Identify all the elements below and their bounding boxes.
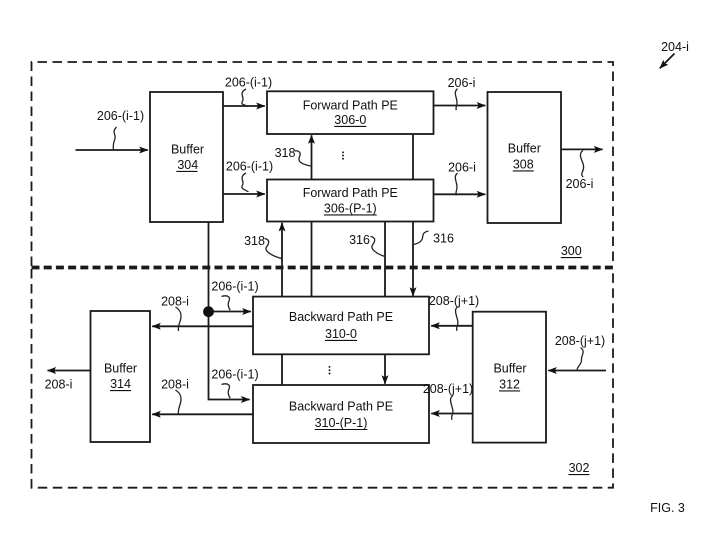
leader 318 lower [265,239,282,259]
leader 208-(j+1) lower [450,396,452,420]
svg-text:316: 316 [349,233,370,247]
leader 316 right [414,231,429,245]
wire from Buffer 304 bottom down to corner [209,222,250,400]
dashed divider (shared edge of 300/302) [32,266,614,268]
svg-text:312: 312 [499,377,520,391]
leader 316 left [371,237,386,257]
svg-text:204-i: 204-i [661,40,689,54]
svg-text:208-i: 208-i [45,378,73,392]
block Buffer 304 [150,92,223,222]
junction dot [203,306,214,317]
wire 310-(P-1) to Buffer 314 [152,413,253,415]
wire junction to 310-0 [209,311,251,313]
block Forward Path PE 306-0 [267,91,434,134]
leader 208-i lower [176,390,182,415]
svg-text:208-(j+1): 208-(j+1) [555,334,605,348]
block Forward Path PE 306-(P-1) [267,180,434,222]
svg-text:318: 318 [244,234,265,248]
svg-text:302: 302 [569,461,590,475]
wire Buffer 304 to 306-(P-1) [223,193,265,195]
leader 208-i upper [176,307,182,331]
wire 318 column: 310-0 top to 306-0 bottom [311,135,313,296]
svg-text:Forward Path PE: Forward Path PE [303,98,398,112]
svg-text:206-i: 206-i [566,177,594,191]
svg-text:310-0: 310-0 [325,327,357,341]
wire Buffer 314 output [48,370,91,372]
svg-text:206-(i-1): 206-(i-1) [97,109,144,123]
svg-text:316: 316 [433,232,454,246]
block Buffer 308 [488,92,562,223]
leader far left [113,127,116,150]
leader 208-(j+1) upper [455,307,457,331]
wire 310-0 to Buffer 314 [152,325,253,327]
leader lower junction [222,384,231,398]
svg-text:300: 300 [561,244,582,258]
svg-text:FIG. 3: FIG. 3 [650,501,685,515]
svg-text:310-(P-1): 310-(P-1) [315,416,368,430]
svg-text:206-(i-1): 206-(i-1) [211,368,258,382]
svg-text:Buffer: Buffer [104,361,137,375]
wire 316 column: 306-(P-1) bottom to 310-(P-1) top [384,222,386,384]
leader mid left [242,173,249,192]
leader 318 upper [295,151,311,166]
svg-text:Buffer: Buffer [508,142,541,156]
svg-text:208-(j+1): 208-(j+1) [429,294,479,308]
svg-text:206-(i-1): 206-(i-1) [225,76,272,90]
wire input to Buffer 304 [76,149,148,151]
leader 206-i mid [455,173,457,195]
svg-text:306-0: 306-0 [334,113,366,127]
wire 316 column: 306-0 bottom to 310-0 top [412,134,414,296]
svg-text:Buffer: Buffer [493,362,526,376]
svg-text:208-(j+1): 208-(j+1) [423,382,473,396]
svg-text:Forward Path PE: Forward Path PE [303,186,398,200]
svg-text:318: 318 [275,146,296,160]
leader 206-i output [580,150,583,177]
wire 306-0 to Buffer 308 [434,105,486,107]
leader 206-i upper [455,89,457,111]
svg-text:206-(i-1): 206-(i-1) [226,160,273,174]
leader junction [222,296,231,310]
svg-text:306-(P-1): 306-(P-1) [324,201,377,215]
dashed region 302 [32,269,614,488]
svg-text:Backward Path PE: Backward Path PE [289,400,393,414]
leader 208-(j+1) right [577,348,583,370]
block Backward Path PE 310-0 [253,297,429,355]
svg-text:Backward Path PE: Backward Path PE [289,310,393,324]
wire 318 column: 310-(P-1) top to 306-(P-1) bottom [281,223,283,385]
vertical ellipsis between forward PEs [342,151,344,159]
svg-text:206-(i-1): 206-(i-1) [211,280,258,294]
wire input to Buffer 312 [548,370,606,372]
arrow for 204-i [660,54,675,69]
svg-text:304: 304 [177,158,198,172]
dashed region 300 [32,62,614,266]
block Backward Path PE 310-(P-1) [253,385,429,443]
block Buffer 312 [473,312,546,443]
svg-text:314: 314 [110,377,131,391]
wire Buffer 312 to 310-(P-1) [431,413,473,415]
wire Buffer 312 to 310-0 [431,325,473,327]
wire Buffer 304 to 306-0 [223,105,265,107]
svg-text:Buffer: Buffer [171,142,204,156]
svg-text:308: 308 [513,157,534,171]
block Buffer 314 [91,311,151,442]
svg-text:206-i: 206-i [448,76,476,90]
leader upper left [242,89,249,106]
svg-text:208-i: 208-i [161,295,189,309]
vertical ellipsis between backward PEs [329,366,331,375]
wire Buffer 308 output [561,148,603,150]
wire 306-(P-1) to Buffer 308 [434,193,486,195]
svg-text:208-i: 208-i [161,378,189,392]
svg-text:206-i: 206-i [448,161,476,175]
